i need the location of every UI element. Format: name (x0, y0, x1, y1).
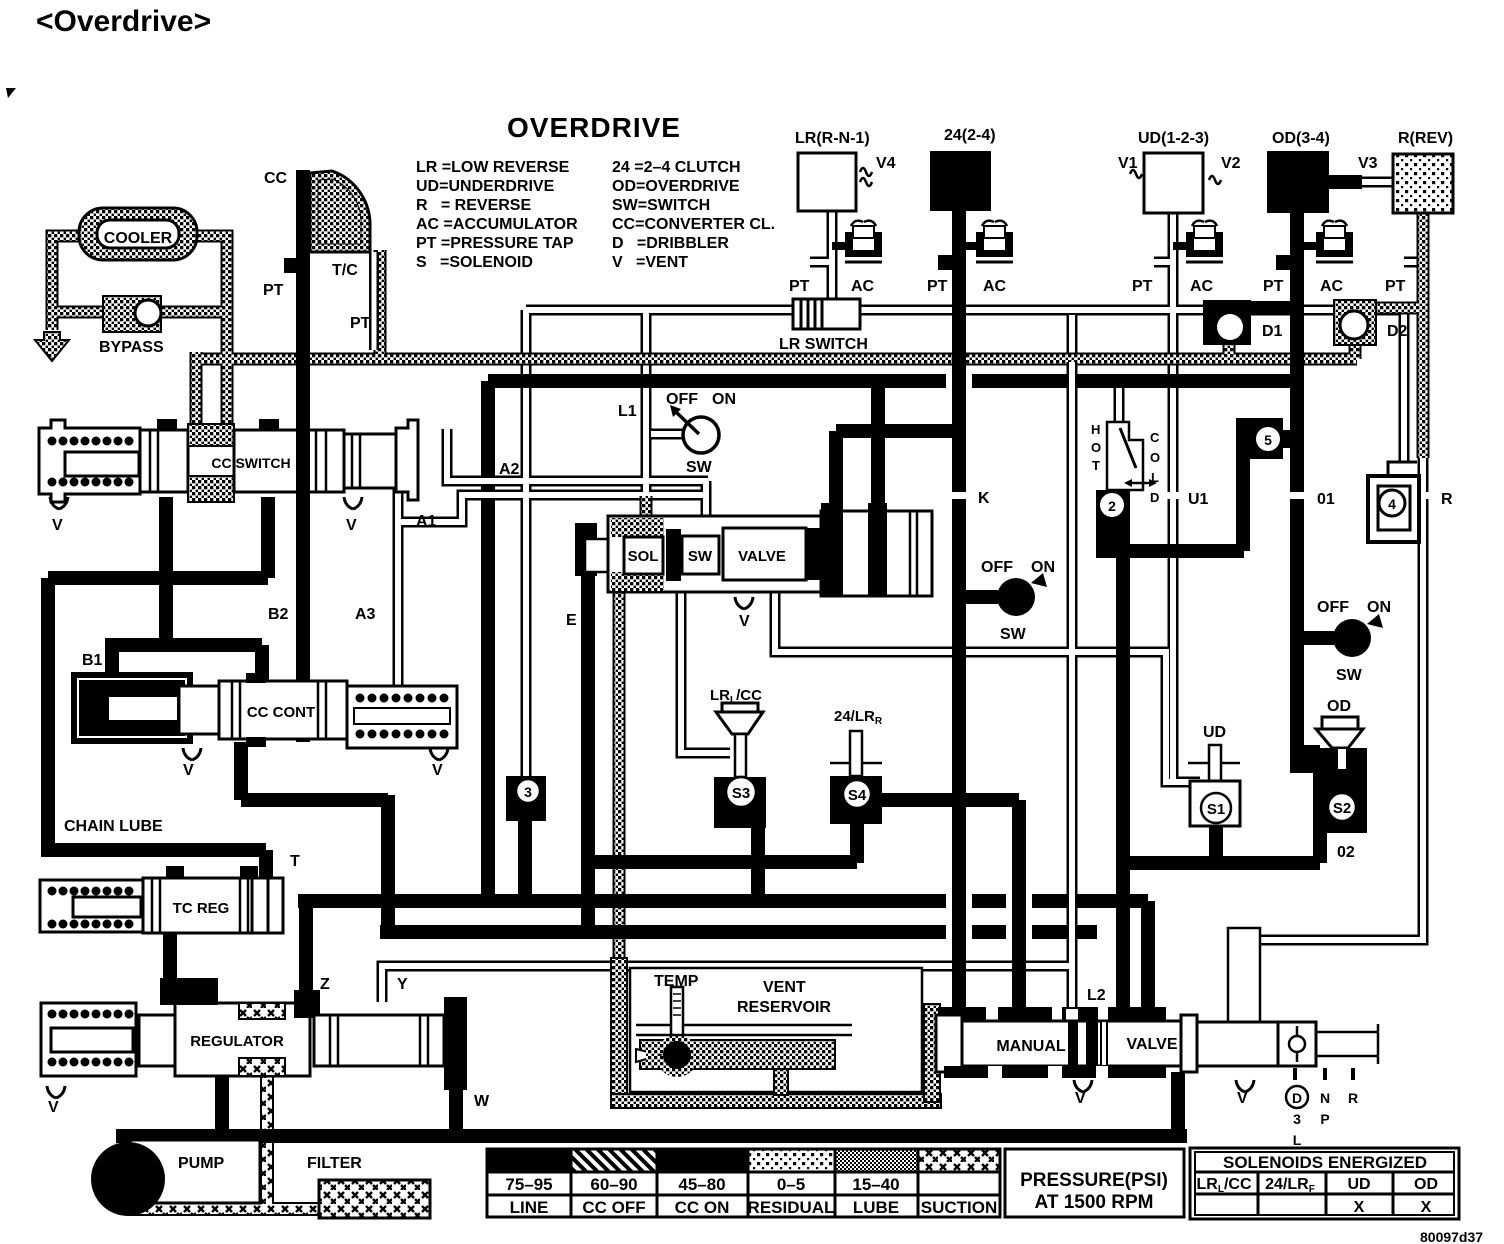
svg-text:V4: V4 (876, 155, 896, 172)
pipe R(REV) drop (1417, 212, 1430, 458)
svg-text:U1: U1 (1188, 491, 1209, 508)
svg-text:AC: AC (1190, 278, 1214, 295)
switch SW (L1) (618, 391, 736, 476)
svg-text:V: V (1237, 1090, 1248, 1107)
svg-text:24(2-4): 24(2-4) (944, 127, 996, 144)
svg-text:01: 01 (1317, 491, 1335, 508)
PT stub (24) (938, 255, 952, 270)
line upper thick horizontal (488, 374, 1292, 388)
svg-text:P: P (1320, 1111, 1329, 1127)
svg-text:PRESSURE(PSI): PRESSURE(PSI) (1020, 1170, 1168, 1191)
cooler COOLER (79, 208, 197, 260)
line UD feed vertical (1116, 551, 1130, 1014)
svg-text:S3: S3 (732, 785, 750, 802)
torque converter T/C (263, 170, 374, 350)
svg-text:H: H (1091, 422, 1100, 437)
svg-text:OD: OD (1414, 1176, 1438, 1193)
line H_e bottom main (116, 1129, 1187, 1143)
svg-text:15–40: 15–40 (852, 1175, 899, 1194)
clutch R(REV) (1393, 130, 1453, 213)
clutch 24(2-4) (930, 127, 996, 211)
svg-text:RESERVOIR: RESERVOIR (737, 999, 831, 1016)
svg-text:PT: PT (263, 282, 284, 299)
clutch UD(1-2-3) (1118, 130, 1241, 213)
pipe cooler left (52, 236, 80, 330)
svg-text:L: L (1151, 470, 1159, 485)
svg-text:TC REG: TC REG (173, 900, 230, 917)
switch SW (K line) (978, 490, 1055, 643)
line K switch stub (959, 590, 998, 604)
valve right (shift) (1197, 928, 1378, 1148)
pipe main stipple line (192, 353, 1357, 366)
svg-text:OD(3-4): OD(3-4) (1272, 130, 1330, 147)
wire UD drop (1168, 213, 1179, 782)
svg-text:UD=UNDERDRIVE: UD=UNDERDRIVE (416, 178, 555, 195)
wire SW L1 vertical (641, 310, 652, 500)
svg-text:D2: D2 (1387, 323, 1408, 340)
valve TC REG (40, 853, 300, 933)
wire L1-to-3 vertical (521, 310, 532, 778)
line manual valve out (1171, 1072, 1185, 1136)
wire UD PT stub (1154, 257, 1173, 268)
line Z vertical (299, 901, 313, 1002)
vent reservoir (611, 958, 941, 1108)
solenoid S2 (1290, 698, 1367, 861)
wire 2-valve top stub (1114, 387, 1125, 422)
line H_b (1123, 856, 1320, 870)
svg-text:SW: SW (686, 459, 713, 476)
svg-text:3: 3 (524, 784, 532, 800)
svg-text:D1: D1 (1262, 323, 1283, 340)
line 2-valve out (1100, 544, 1244, 558)
svg-text:CC CONT: CC CONT (247, 704, 315, 721)
svg-text:CC OFF: CC OFF (582, 1198, 645, 1217)
wire A2 (447, 429, 708, 481)
clutch LR(R-N-1) (795, 130, 896, 211)
svg-text:5: 5 (1264, 432, 1272, 448)
line 878 drop (871, 381, 885, 510)
valve REGULATOR (41, 978, 467, 1116)
svg-text:A1: A1 (416, 513, 437, 530)
svg-text:X: X (1421, 1199, 1432, 1216)
thermal valve HOT/COLD with orifice 2 (1091, 422, 1160, 558)
svg-text:LR =LOW REVERSE: LR =LOW REVERSE (416, 159, 570, 176)
valve CC CONT with accumulator B1 (72, 652, 457, 779)
svg-text:LINE: LINE (510, 1198, 549, 1217)
svg-text:LUBE: LUBE (853, 1198, 899, 1217)
valve CC SWITCH (39, 419, 418, 534)
dribbler D2 (1334, 300, 1408, 345)
svg-text:S1: S1 (1207, 801, 1225, 818)
svg-text:PT: PT (1132, 278, 1153, 295)
svg-text:R(REV): R(REV) (1398, 130, 1453, 147)
svg-text:LR SWITCH: LR SWITCH (779, 336, 868, 353)
svg-text:OVERDRIVE: OVERDRIVE (507, 112, 681, 143)
svg-text:Y: Y (397, 976, 408, 993)
line H2 (105, 638, 262, 652)
line 836 drop (829, 431, 843, 510)
svg-text:RESIDUAL: RESIDUAL (748, 1198, 835, 1217)
wire LR PT stub (810, 257, 832, 268)
line S3 drop (751, 824, 765, 901)
svg-text:TEMP: TEMP (654, 973, 699, 990)
svg-text:45–80: 45–80 (678, 1175, 725, 1194)
switch LR SWITCH (779, 299, 868, 353)
solenoid S3 (710, 687, 766, 828)
svg-text:UD(1-2-3): UD(1-2-3) (1138, 130, 1209, 147)
svg-text:60–90: 60–90 (590, 1175, 637, 1194)
line 488 vertical (481, 381, 495, 901)
legend (416, 159, 775, 271)
svg-text:OFF: OFF (666, 391, 698, 408)
svg-text:E: E (566, 612, 577, 629)
svg-text:SW: SW (688, 548, 713, 565)
svg-text:R: R (1441, 491, 1453, 508)
line H1 (48, 571, 268, 585)
svg-text:COOLER: COOLER (104, 230, 173, 247)
line S1 drop (1209, 826, 1223, 863)
accumulator AC (LR) (845, 221, 882, 262)
wire R PT stub (1404, 257, 1423, 268)
PT stub (OD) (1276, 255, 1290, 270)
line W drop (449, 1066, 463, 1136)
line H_a (588, 855, 857, 869)
svg-text:FILTER: FILTER (307, 1155, 362, 1172)
svg-text:SOLENOIDS ENERGIZED: SOLENOIDS ENERGIZED (1223, 1153, 1427, 1172)
svg-text:02: 02 (1337, 844, 1355, 861)
wire S3 feed (681, 592, 730, 753)
svg-text:X: X (1354, 1199, 1365, 1216)
svg-text:O: O (1150, 450, 1160, 465)
svg-text:V: V (739, 613, 750, 630)
pipe SOL entry (640, 496, 653, 528)
wire R line lower (1242, 455, 1423, 1012)
wire A1 (398, 482, 706, 522)
line circled5 drop (1236, 459, 1250, 551)
wire V3 link (1360, 177, 1395, 188)
svg-text:V: V (183, 762, 194, 779)
svg-text:B2: B2 (268, 606, 289, 623)
svg-text:SOL: SOL (628, 548, 659, 565)
line H_d (380, 925, 1097, 939)
line 3 drop (518, 812, 532, 901)
svg-text:80097d37: 80097d37 (1420, 1229, 1483, 1244)
svg-text:V: V (48, 1099, 59, 1116)
svg-text:N: N (1320, 1090, 1330, 1106)
orifice 5 (1236, 418, 1297, 459)
svg-text:UD: UD (1203, 724, 1226, 741)
line CC CONT out (241, 742, 388, 932)
solenoid S4 (830, 708, 883, 824)
line cc switch to H1 (261, 497, 275, 578)
svg-text:C: C (1150, 430, 1160, 445)
wire top long line L1 feed (526, 310, 1404, 462)
svg-text:VALVE: VALVE (738, 548, 786, 565)
wire A3 (393, 522, 404, 686)
svg-text:V2: V2 (1221, 155, 1241, 172)
svg-text:AC =ACCUMULATOR: AC =ACCUMULATOR (416, 216, 578, 233)
pipe T/C drop (374, 250, 387, 359)
svg-text:OD: OD (1327, 698, 1351, 715)
svg-text:A2: A2 (499, 461, 520, 478)
svg-text:LRL/CC: LRL/CC (710, 687, 762, 706)
svg-text:24/LRF: 24/LRF (1265, 1176, 1315, 1195)
line 24 clutch vertical (952, 211, 966, 1014)
svg-text:BYPASS: BYPASS (99, 339, 164, 356)
svg-text:PT: PT (927, 278, 948, 295)
line D1 link (1251, 301, 1297, 315)
valve MANUAL VALVE (936, 987, 1197, 1107)
svg-text:T: T (290, 853, 300, 870)
svg-text:L2: L2 (1087, 987, 1106, 1004)
line chain lube (41, 850, 266, 882)
line OD switch stub (1297, 631, 1334, 645)
wire LR clutch drop (827, 211, 838, 300)
svg-text:PT: PT (1385, 278, 1406, 295)
pump PUMP (91, 1140, 260, 1216)
svg-text:SW: SW (1000, 626, 1027, 643)
svg-text:T: T (1092, 458, 1100, 473)
line OD vertical (1290, 211, 1304, 755)
line S4 drop (850, 818, 864, 863)
svg-text:24 =2–4 CLUTCH: 24 =2–4 CLUTCH (612, 159, 741, 176)
svg-text:OFF: OFF (981, 559, 1013, 576)
svg-text:AC: AC (983, 278, 1007, 295)
wire Y pipe (382, 966, 1072, 1002)
line S4 feed (882, 800, 1019, 1014)
svg-text:<Overdrive>: <Overdrive> (36, 5, 211, 38)
pipe D2 to R (1360, 302, 1423, 315)
line E vertical (581, 523, 595, 932)
pipe D2 stem (1349, 342, 1362, 359)
svg-text:CC ON: CC ON (675, 1198, 730, 1217)
svg-text:ON: ON (1031, 559, 1055, 576)
svg-text:R = REVERSE: R = REVERSE (416, 197, 531, 214)
line TC REG to regulator (163, 932, 177, 1003)
wire S1 feed enclosure (775, 592, 1200, 782)
svg-text:VENT: VENT (763, 979, 806, 996)
svg-text:OFF: OFF (1317, 599, 1349, 616)
svg-text:V3: V3 (1358, 155, 1378, 172)
line regulator to pump (215, 1076, 229, 1136)
svg-text:T/C: T/C (332, 262, 358, 279)
line H2 to B1 (105, 645, 119, 676)
bypass valve BYPASS (99, 296, 164, 356)
pipe bypass (52, 306, 225, 319)
svg-text:REGULATOR: REGULATOR (190, 1033, 284, 1050)
line V3 link (1329, 175, 1362, 189)
svg-text:UD: UD (1347, 1176, 1370, 1193)
valve SOL SW VALVE assembly (575, 503, 932, 630)
re-draw thin pipes passing over thick lines (470, 362, 1072, 950)
pipe D1 stem (1223, 342, 1236, 359)
wire L1 switch stub (651, 429, 684, 440)
svg-text:PUMP: PUMP (178, 1155, 225, 1172)
svg-text:0–5: 0–5 (777, 1175, 805, 1194)
svg-text:AT 1500 RPM: AT 1500 RPM (1035, 1192, 1154, 1213)
svg-text:S =SOLENOID: S =SOLENOID (416, 254, 533, 271)
svg-text:AC: AC (851, 278, 875, 295)
svg-text:V: V (1075, 1090, 1086, 1107)
dribbler D1 (1203, 300, 1283, 345)
svg-text:OD=OVERDRIVE: OD=OVERDRIVE (612, 178, 740, 195)
svg-text:AC: AC (1320, 278, 1344, 295)
svg-text:O: O (1091, 440, 1101, 455)
wire L2 (1067, 315, 1078, 1010)
svg-text:LRL/CC: LRL/CC (1197, 1176, 1252, 1195)
svg-text:75–95: 75–95 (505, 1175, 552, 1194)
line left main down (41, 578, 55, 850)
clutch OD(3-4) (1267, 130, 1378, 213)
svg-text:CC=CONVERTER CL.: CC=CONVERTER CL. (612, 216, 775, 233)
orifice 3 (506, 776, 546, 821)
svg-text:MANUAL: MANUAL (996, 1038, 1066, 1055)
wire SW box drop (701, 481, 712, 532)
svg-text:A3: A3 (355, 606, 376, 623)
svg-text:V1: V1 (1118, 155, 1138, 172)
svg-text:B1: B1 (82, 652, 103, 669)
filter FILTER (307, 1155, 430, 1218)
AC branch links (832, 242, 1322, 250)
svg-text:PT =PRESSURE TAP: PT =PRESSURE TAP (416, 235, 574, 252)
svg-text:LR(R-N-1): LR(R-N-1) (795, 130, 870, 147)
line CC main vertical (296, 170, 310, 742)
orifice 4 (1368, 462, 1419, 542)
svg-text:PT: PT (1263, 278, 1284, 295)
svg-text:V: V (346, 517, 357, 534)
svg-text:VALVE: VALVE (1127, 1036, 1178, 1053)
svg-text:S2: S2 (1333, 800, 1351, 817)
pipe regulator suction (260, 1076, 274, 1209)
svg-text:S4: S4 (848, 787, 867, 804)
switch SW (OD) (1317, 599, 1391, 684)
pipe cc switch loop (190, 352, 203, 425)
svg-text:L1: L1 (618, 403, 637, 420)
suction cross-pattern pipes (130, 1076, 330, 1209)
svg-text:R: R (1348, 1090, 1358, 1106)
svg-text:K: K (978, 490, 990, 507)
pipe cooler right (196, 236, 227, 352)
svg-text:ON: ON (1367, 599, 1391, 616)
svg-text:SUCTION: SUCTION (921, 1198, 998, 1217)
pipe pump suction (130, 1202, 330, 1216)
table pressure legend (487, 1149, 1000, 1217)
svg-text:3: 3 (1293, 1111, 1301, 1127)
svg-text:CHAIN LUBE: CHAIN LUBE (64, 818, 163, 835)
svg-text:V: V (432, 762, 443, 779)
svg-text:Z: Z (320, 976, 330, 993)
svg-text:V: V (52, 517, 63, 534)
line S2 drop (1313, 833, 1327, 863)
svg-text:D =DRIBBLER: D =DRIBBLER (612, 235, 729, 252)
solenoid S1 (1188, 724, 1240, 826)
svg-text:ON: ON (712, 391, 736, 408)
line H_c (298, 901, 1148, 1014)
line cc switch to H2 (159, 497, 173, 651)
svg-text:2: 2 (1108, 498, 1116, 514)
svg-text:CC: CC (264, 170, 288, 187)
svg-text:W: W (474, 1093, 490, 1110)
box pressure psi (1005, 1149, 1184, 1217)
svg-text:CC SWITCH: CC SWITCH (211, 455, 290, 471)
table solenoids energized (1190, 1148, 1459, 1219)
svg-text:4: 4 (1388, 496, 1396, 512)
drain arrow (35, 332, 69, 361)
svg-text:D: D (1150, 490, 1159, 505)
svg-text:SW: SW (1336, 667, 1363, 684)
svg-text:SW=SWITCH: SW=SWITCH (612, 197, 710, 214)
pipe reservoir feed (613, 588, 626, 964)
svg-text:PT: PT (350, 315, 371, 332)
svg-text:L: L (1293, 1132, 1302, 1148)
svg-text:V =VENT: V =VENT (612, 254, 688, 271)
svg-text:PT: PT (789, 278, 810, 295)
joint markers (946, 372, 1432, 941)
svg-text:D: D (1292, 1090, 1302, 1106)
line H2 to CC CONT (255, 645, 269, 690)
line mid horizontal 431 (836, 424, 959, 438)
